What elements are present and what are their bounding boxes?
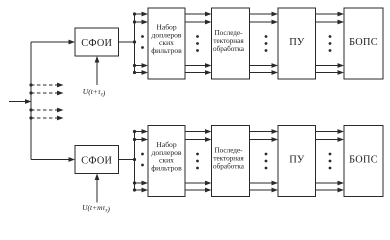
node: trunk junction for dashed channel 5 — [29, 116, 32, 119]
wire: postdetector processing to ПУ ch1.3 — [250, 63, 279, 68]
svg-text:СФОИ: СФОИ — [81, 38, 112, 49]
node: bus junction ch1.4 — [133, 71, 136, 74]
node: bus junction ch1.1 — [133, 12, 136, 15]
node: ellipsis dots ПУ→БОПС ch-m — [329, 153, 332, 170]
wire: bus branch arrow ch1.4 into filter bank — [135, 70, 149, 75]
wire: СФОИ ch-m output to distribution bus — [119, 159, 135, 161]
wire: input signal arrow — [9, 99, 32, 104]
wire: postdetector processing to ПУ ch-m.3 — [250, 181, 279, 186]
node: trunk junction for dashed channel 3 — [29, 91, 32, 94]
wire: input trunk vertical — [30, 42, 32, 160]
svg-text:БОПС: БОПС — [349, 155, 378, 166]
block: ПУ ch1 (threshold device) — [278, 8, 316, 79]
wire: bus branch arrow ch1.1 into filter bank — [135, 12, 149, 17]
wire: dashed arrow intermediate channel 5 — [31, 116, 64, 121]
svg-text:Последе-текторнаяобработка: Последе-текторнаяобработка — [213, 147, 245, 171]
node: ellipsis dots between bus branches ch-m — [141, 153, 144, 167]
wire: postdetector processing to ПУ ch-m.1 — [250, 129, 279, 134]
wire: filter bank to postdetector processing ch1.4 — [185, 70, 212, 75]
node: trunk junction for dashed channel 2 — [29, 83, 32, 86]
wire: reference signal arrow into СФОИ ch1 — [95, 56, 100, 85]
node: junction of СФОИ ch-m output on bus — [133, 158, 136, 161]
wire: postdetector processing to ПУ ch-m.4 — [250, 188, 279, 193]
block: БОПС ch-m — [344, 126, 383, 197]
node: bus junction ch1.2 — [133, 20, 136, 23]
node: bus junction ch-m.4 — [133, 188, 136, 191]
wire: ПУ to БОПС ch-m.2 — [316, 137, 345, 142]
wire: filter bank to postdetector processing ch-m.2 — [185, 137, 212, 142]
wire: postdetector processing to ПУ ch1.1 — [250, 12, 279, 17]
label: U(t+mτз) reference delay — [82, 203, 110, 214]
wire: trunk to СФОИ ch1 with arrow — [31, 40, 75, 45]
block: Набор доплеровских фильтров ch1 — [148, 8, 185, 79]
node: ellipsis dots postdetector→ПУ ch1 — [265, 35, 268, 52]
wire: postdetector processing to ПУ ch1.2 — [250, 20, 279, 25]
label: U(t+τз) reference delay — [83, 87, 106, 98]
wire: СФОИ ch1 output to distribution bus — [119, 41, 135, 43]
node: junction of СФОИ ch1 output on bus — [133, 40, 136, 43]
svg-text:U(t+mτз): U(t+mτз) — [82, 203, 110, 214]
wire: trunk to СФОИ ch-m with arrow — [31, 157, 75, 162]
wire: ПУ to БОПС ch-m.4 — [316, 188, 345, 193]
svg-text:U(t+τз): U(t+τз) — [83, 87, 106, 98]
wire: bus branch arrow ch-m.4 into filter bank — [135, 188, 149, 193]
svg-text:ПУ: ПУ — [289, 37, 305, 48]
svg-text:СФОИ: СФОИ — [81, 156, 112, 167]
wire: filter bank to postdetector processing ch1.1 — [185, 12, 212, 17]
node: ellipsis dots filter→postdetector ch1 — [196, 35, 199, 52]
wire: vertical distribution bus ch-m — [134, 132, 136, 191]
wire: postdetector processing to ПУ ch1.4 — [250, 70, 279, 75]
block: ПУ ch-m (threshold device) — [278, 126, 316, 197]
node: bus junction ch-m.1 — [133, 130, 136, 133]
wire: reference signal arrow into СФОИ ch-m — [95, 174, 100, 203]
wire: ПУ to БОПС ch-m.3 — [316, 181, 345, 186]
node: bus junction ch-m.2 — [133, 138, 136, 141]
wire: ПУ to БОПС ch1.1 — [316, 12, 345, 17]
wire: bus branch arrow ch-m.1 into filter bank — [135, 129, 149, 134]
wire: bus branch arrow ch1.2 into filter bank — [135, 20, 149, 25]
wire: dashed arrow intermediate channel 3 — [31, 91, 64, 96]
block: Набор доплеровских фильтров ch-m — [148, 126, 185, 197]
block: БОПС ch1 — [344, 8, 383, 79]
node: bus junction ch1.3 — [133, 64, 136, 67]
svg-text:БОПС: БОПС — [349, 37, 378, 48]
block: СФОИ ch1 (matched-filter unit) — [75, 28, 119, 56]
wire: ПУ to БОПС ch-m.1 — [316, 129, 345, 134]
node: bus junction ch-m.3 — [133, 181, 136, 184]
wire: ПУ to БОПС ch1.3 — [316, 63, 345, 68]
node: ellipsis dots postdetector→ПУ ch-m — [265, 153, 268, 170]
node: ellipsis dots filter→postdetector ch-m — [196, 153, 199, 170]
block: Последетекторная обработка ch-m — [212, 126, 250, 197]
wire: dashed arrow intermediate channel 2 — [31, 83, 64, 88]
wire: filter bank to postdetector processing ch-m.4 — [185, 188, 212, 193]
wire: ПУ to БОПС ch1.4 — [316, 70, 345, 75]
node: ellipsis dots between bus branches ch1 — [141, 35, 144, 49]
wire: filter bank to postdetector processing ch-m.1 — [185, 129, 212, 134]
node: ellipsis dots ПУ→БОПС ch1 — [329, 35, 332, 52]
wire: bus branch arrow ch-m.3 into filter bank — [135, 181, 149, 186]
wire: vertical distribution bus ch1 — [134, 14, 136, 73]
block: Последетекторная обработка ch1 — [212, 8, 250, 79]
wire: ПУ to БОПС ch1.2 — [316, 20, 345, 25]
svg-text:ПУ: ПУ — [289, 155, 305, 166]
wire: filter bank to postdetector processing ch1.2 — [185, 20, 212, 25]
wire: bus branch arrow ch-m.2 into filter bank — [135, 137, 149, 142]
svg-text:Последе-текторнаяобработка: Последе-текторнаяобработка — [213, 29, 245, 53]
wire: filter bank to postdetector processing ch-m.3 — [185, 181, 212, 186]
wire: dashed arrow intermediate channel 4 — [31, 108, 64, 113]
wire: postdetector processing to ПУ ch-m.2 — [250, 137, 279, 142]
wire: filter bank to postdetector processing ch1.3 — [185, 63, 212, 68]
wire: bus branch arrow ch1.3 into filter bank — [135, 63, 149, 68]
node: trunk junction for dashed channel 4 — [29, 108, 32, 111]
block: СФОИ ch-m (matched-filter unit) — [75, 146, 119, 174]
